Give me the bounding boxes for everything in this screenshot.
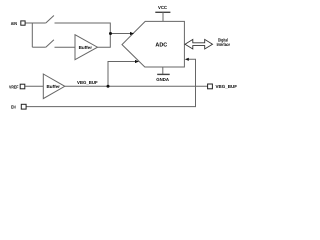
wire S2 to buffer U1 input — [55, 46, 76, 48]
svg-text:GNDA: GNDA — [156, 77, 170, 82]
svg-text:VBG_BUF: VBG_BUF — [77, 80, 98, 85]
svg-text:AIN: AIN — [11, 21, 17, 26]
arrowhead into ADC upper input — [130, 32, 134, 35]
svg-text:VBG_BUF: VBG_BUF — [216, 84, 238, 89]
wire node to ADC upper input — [110, 33, 131, 35]
wire lower branch to switch S2 — [32, 46, 46, 48]
wire node to ADC lower input — [108, 62, 137, 87]
ground GNDA stub — [162, 67, 164, 74]
svg-text:Interface: Interface — [217, 42, 231, 47]
svg-text:Buffer: Buffer — [79, 45, 93, 50]
wire VREF to buffer U2 — [25, 85, 43, 87]
svg-text:ADC: ADC — [155, 42, 168, 49]
wire AIN to switch S1 — [25, 22, 46, 24]
arrowhead EN into ADC — [185, 58, 189, 61]
pin VBG_BUF — [208, 84, 213, 89]
arrowhead into ADC lower input — [135, 60, 139, 63]
buffer U2 — [43, 74, 65, 99]
wire EN net — [26, 59, 195, 106]
power VCC bar — [155, 11, 170, 13]
ADC block — [122, 21, 184, 67]
pin EN — [21, 104, 26, 109]
node junction dot VBG — [107, 85, 110, 88]
wire branch vertical at node — [31, 23, 33, 47]
svg-text:EN: EN — [11, 104, 16, 109]
svg-text:Buffer: Buffer — [47, 84, 61, 89]
svg-text:VREF: VREF — [9, 84, 19, 89]
switch S1 arm — [46, 16, 54, 24]
switch S2 arm — [46, 40, 54, 48]
wire buffer U1 output to node — [98, 34, 111, 48]
pin AIN — [21, 21, 25, 25]
wire VBG_BUF net to pin — [65, 85, 208, 87]
ground GNDA bar — [157, 73, 170, 75]
buffer U1 — [75, 35, 98, 60]
wire S1 to bypass corner — [55, 23, 111, 34]
svg-text:VCC: VCC — [158, 5, 168, 10]
digital interface double arrow — [185, 39, 213, 49]
node junction dot upper — [109, 32, 112, 35]
pin VREF — [20, 84, 25, 89]
wire VCC stub — [162, 12, 164, 21]
